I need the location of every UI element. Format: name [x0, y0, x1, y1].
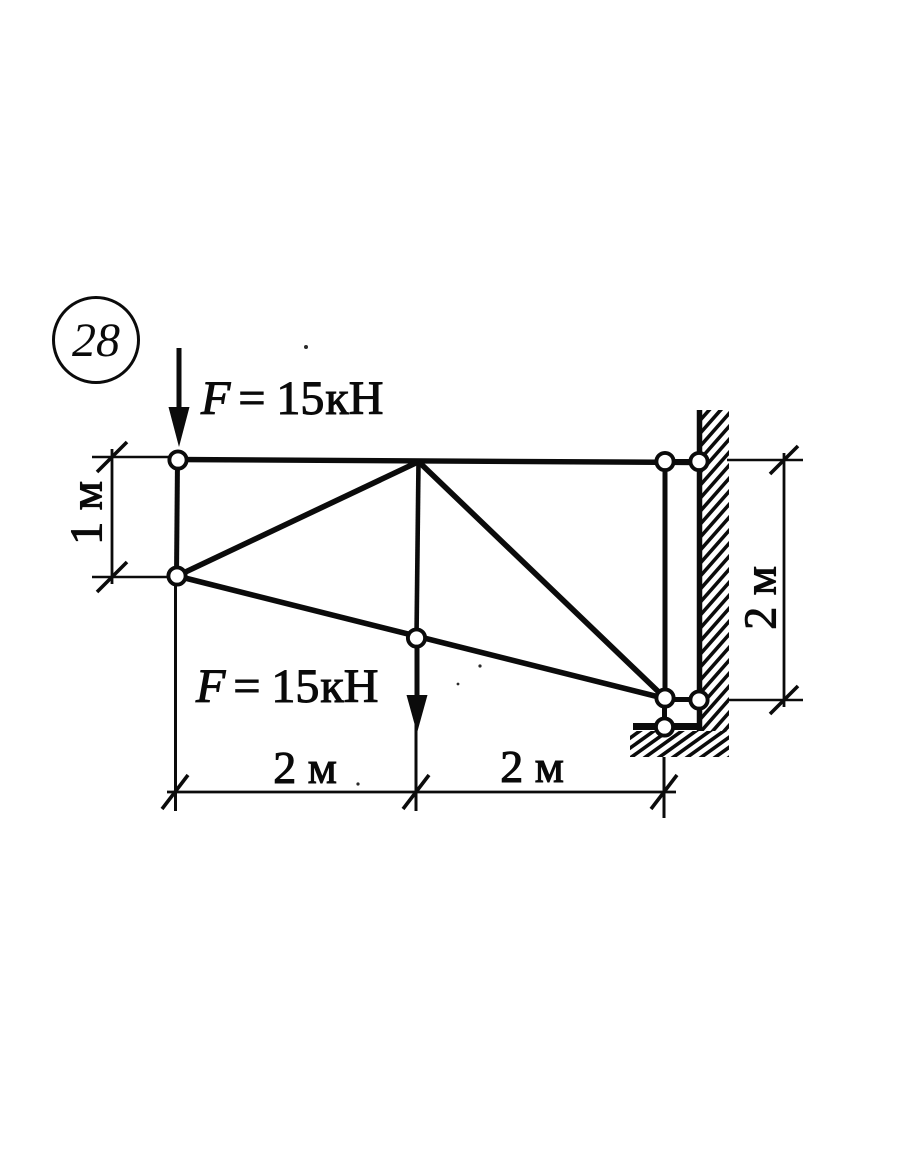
force F2 arrowhead: [407, 695, 428, 733]
svg-text:2 м: 2 м: [735, 566, 786, 630]
bottom chord member: [177, 576, 667, 699]
middle vertical member apex to mid node: [417, 462, 419, 638]
svg-text:F=15кН: F=15кН: [200, 372, 383, 425]
node bottom-right inner: [656, 689, 673, 706]
diagonal member apex to bottom-right node: [419, 462, 666, 699]
right dimension tick top: [770, 446, 798, 474]
node bottom-right on wall: [690, 691, 707, 708]
right vertical member: [663, 462, 668, 698]
roller support ground bar: [633, 723, 701, 730]
node middle bottom chord: [408, 629, 425, 646]
left dimension line 1 m: [111, 449, 114, 584]
node lower-left: [168, 567, 185, 584]
svg-text:2 м: 2 м: [273, 742, 337, 793]
right dimension tick bottom: [770, 686, 798, 714]
node top-left: [169, 451, 186, 468]
left dimension tick top: [97, 442, 127, 472]
link bottom node to roller: [662, 698, 667, 727]
ground hatch band (bottom-right roller support): [598, 728, 770, 761]
right dimension line 2 m: [783, 453, 786, 707]
svg-text:1 м: 1 м: [61, 481, 112, 545]
node top-right inner: [656, 453, 673, 470]
extension line below lower-left node: [174, 584, 177, 811]
svg-text:F=15кН: F=15кН: [195, 660, 378, 713]
svg-text:28: 28: [72, 314, 120, 367]
left dimension extension line top: [92, 456, 170, 459]
top chord member: [175, 460, 701, 463]
node top-right on wall: [690, 453, 707, 470]
wall hatch band (right support wall): [696, 370, 733, 763]
left vertical member: [177, 460, 178, 576]
extension line below middle force arrow: [415, 700, 418, 811]
force F1 arrow shaft: [177, 348, 182, 420]
right dimension extension line top: [727, 459, 803, 462]
right dimension extension line bottom: [727, 699, 803, 702]
bottom link to wall: [665, 697, 699, 702]
problem number badge circle 28: [54, 298, 139, 383]
force F1 arrowhead: [169, 407, 190, 447]
svg-text:2 м: 2 м: [500, 741, 564, 792]
bottom dimension line: [167, 791, 676, 794]
extension line below roller support: [663, 757, 666, 818]
scan speckle dots: [304, 345, 482, 786]
bottom dimension tick left: [162, 775, 188, 809]
force F2 arrow shaft: [415, 646, 420, 708]
bottom dimension tick middle: [403, 775, 429, 809]
diagonal member lower-left node to apex: [177, 461, 420, 576]
left dimension tick bottom: [97, 562, 127, 592]
bottom dimension tick right: [651, 775, 677, 809]
top link to wall: [665, 459, 699, 464]
wall face line: [697, 410, 703, 731]
roller circle: [656, 718, 673, 735]
left dimension extension line bottom: [92, 576, 169, 579]
